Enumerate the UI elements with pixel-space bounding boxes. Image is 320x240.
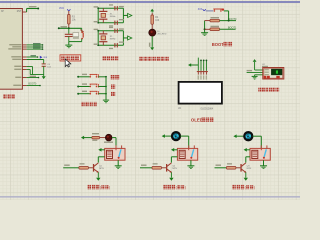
transistor Q3 (NPN)	[240, 164, 241, 172]
svg-text:BOOT0: BOOT0	[228, 18, 237, 21]
transistor Q1 (NPN)	[93, 164, 94, 172]
label box C3 value	[73, 33, 79, 37]
push button K2	[77, 86, 79, 88]
wire RST net	[26, 9, 28, 13]
svg-text:8MHz: 8MHz	[110, 16, 116, 18]
svg-text:): )	[254, 186, 255, 190]
svg-text:BOOT0: BOOT0	[29, 84, 38, 86]
relay coil	[107, 150, 113, 158]
mouse cursor	[65, 59, 71, 67]
wire LED to terminal	[151, 36, 153, 47]
label 温湿度传感器	[258, 88, 261, 92]
svg-text:3V3: 3V3	[198, 9, 203, 11]
label 复位电路 (selected, red frame)	[60, 55, 81, 61]
reset button K4	[81, 28, 83, 31]
OLED pin names	[198, 75, 199, 79]
terminal arrow down (emitter)	[97, 172, 99, 177]
relay RL	[105, 148, 125, 160]
terminal up (indicator)	[151, 11, 153, 12]
DHT11 green screen	[271, 69, 282, 75]
relay switch (cyan)	[191, 149, 193, 158]
ground arrow below C6	[43, 75, 45, 77]
power flag VBAT (blue)	[40, 56, 43, 59]
capacitor C3	[68, 28, 70, 34]
svg-text:OLED: OLED	[191, 117, 203, 122]
terminal arrow down (indicator)	[151, 46, 153, 49]
label 减	[111, 92, 115, 96]
ground (keys)	[103, 99, 109, 101]
OLED pin wires	[190, 64, 198, 66]
svg-text:): )	[109, 186, 110, 190]
svg-text:LED-RED: LED-RED	[157, 34, 167, 36]
relay top pin ticks	[188, 145, 190, 150]
resistor R3	[68, 11, 70, 15]
capacitor bottom (XT1)	[114, 21, 116, 25]
output terminal arrow (XT1)	[123, 14, 127, 16]
resistor R4	[151, 13, 153, 15]
sheet top border	[0, 1, 300, 3]
chip pin stub	[22, 11, 26, 13]
svg-text:3P: 3P	[1, 11, 4, 13]
wire relay to ground	[190, 160, 192, 165]
LED D2 (relay indicator)	[105, 134, 112, 141]
wire VDD net	[27, 60, 44, 64]
wire VCC to button	[206, 10, 214, 12]
relay RL	[177, 148, 197, 160]
relay switch (cyan)	[119, 149, 121, 158]
resistor R5 (led series)	[85, 137, 92, 139]
terminal arrow down (emitter)	[170, 172, 172, 177]
OLED pin stubs	[197, 71, 199, 75]
svg-text:OLED12864: OLED12864	[200, 108, 213, 110]
DHT11 +/- buttons	[264, 76, 267, 79]
wire DATA (DHT11)	[247, 71, 263, 73]
wire relay to ground	[263, 160, 265, 165]
MCU chip U1 (STM32, clipped at left edge)	[0, 9, 22, 90]
wire collector to coil	[245, 157, 247, 163]
resistor R1 (BOOT0)	[205, 20, 210, 22]
resistor (base)	[215, 167, 227, 169]
crystal sub-circuit XT2 rails	[98, 30, 123, 32]
terminal arrow (relay common)	[100, 149, 103, 151]
output terminal arrow (XT2)	[123, 37, 127, 39]
power arrow up (DHT11)	[254, 62, 256, 70]
svg-text:NPN: NPN	[172, 168, 177, 170]
wire VCC net	[27, 56, 38, 58]
chip pin stub	[22, 56, 26, 58]
label 程序运行指示灯	[139, 57, 143, 61]
svg-text:BOOT: BOOT	[212, 42, 225, 47]
wire NRST net	[27, 77, 39, 79]
chip pin stub	[22, 48, 26, 50]
wire BOOT0 net from chip	[27, 85, 40, 87]
ground (BOOT)	[204, 31, 206, 33]
node RST terminal dot	[37, 8, 39, 10]
wire VSSA to cap	[27, 66, 33, 68]
transistor Q2 (NPN)	[166, 164, 167, 172]
resistor (base)	[63, 167, 79, 169]
label 继电器(降温)	[163, 185, 167, 189]
crystal XT1	[102, 8, 104, 11]
terminal arrow (relay common)	[172, 149, 175, 151]
capacitor C6	[42, 63, 46, 65]
label 继电器(加湿)	[232, 185, 236, 189]
capacitor top (XT2)	[114, 29, 116, 33]
capacitor top (XT1)	[114, 6, 116, 10]
relay RL	[250, 148, 270, 160]
grid background	[0, 0, 300, 200]
wire RESET node	[59, 27, 82, 29]
capacitor bottom (XT2)	[114, 43, 116, 47]
chip pin stub	[22, 44, 26, 46]
wire chip net	[27, 48, 43, 50]
wire GND + ground (DHT11)	[255, 74, 263, 76]
terminal arrow (load supply)	[236, 135, 238, 137]
ground (relay)	[115, 165, 122, 167]
ground (relay)	[187, 165, 194, 167]
wire chip net	[27, 46, 43, 48]
svg-text:NPN: NPN	[99, 168, 104, 170]
ground (reset)	[68, 42, 70, 45]
fan/motor load	[244, 132, 252, 140]
terminal arrow (relay common)	[245, 149, 248, 151]
LED D1 (red)	[149, 29, 156, 36]
wire keys common rail	[105, 77, 107, 100]
wire collector to coil	[97, 157, 99, 163]
wire reset bottom	[69, 41, 82, 43]
chip pin stub	[22, 69, 26, 71]
svg-text:8MHz: 8MHz	[110, 39, 116, 41]
wire chip net	[27, 44, 43, 46]
terminal arrow (load supply)	[164, 135, 166, 137]
ground (relay)	[260, 165, 267, 167]
resistor R2 (BOOT1)	[204, 28, 206, 30]
crystal sub-circuit XT1 rails	[98, 7, 123, 9]
chip pin stub	[22, 66, 26, 68]
wire load to relay pin	[188, 136, 190, 148]
label 晶振电路	[103, 56, 107, 60]
wire collector to coil	[170, 157, 172, 163]
chip pin stub	[22, 46, 26, 48]
label 设置	[110, 75, 114, 79]
chip pin stub	[22, 85, 26, 87]
wire load to relay pin	[115, 138, 117, 149]
terminal arrow (load supply)	[83, 137, 85, 139]
relay coil	[179, 150, 185, 158]
fan/motor load	[172, 132, 180, 140]
svg-text:): )	[185, 186, 186, 190]
svg-text:NPN: NPN	[247, 168, 252, 170]
chip label 单片机	[3, 95, 7, 99]
relay top pin ticks	[115, 145, 117, 150]
wire load to relay pin	[260, 136, 262, 148]
wire left rail	[204, 21, 206, 31]
relay top pin ticks	[260, 145, 262, 150]
label 独立按键	[81, 102, 85, 106]
wire button to BOOT0 node	[224, 10, 229, 12]
relay coil	[252, 150, 258, 158]
chip pin stub	[22, 77, 26, 79]
push button K1	[77, 76, 79, 78]
svg-text:VCC: VCC	[59, 7, 64, 10]
wire relay to ground	[117, 160, 119, 165]
button K-boot	[213, 8, 222, 10]
OLED display panel	[179, 82, 222, 104]
label 继电器(加热)	[87, 185, 91, 189]
relay switch (cyan)	[264, 149, 266, 158]
chip pin stub	[22, 59, 26, 61]
svg-text:RST: RST	[17, 11, 22, 13]
svg-text:BOOT1: BOOT1	[228, 27, 237, 30]
resistor (base)	[140, 167, 152, 169]
terminal arrow down (emitter)	[245, 172, 247, 177]
push button K3	[77, 93, 79, 95]
crystal XT2	[102, 31, 104, 34]
sheet bottom border	[0, 196, 300, 198]
label 加	[111, 84, 115, 88]
